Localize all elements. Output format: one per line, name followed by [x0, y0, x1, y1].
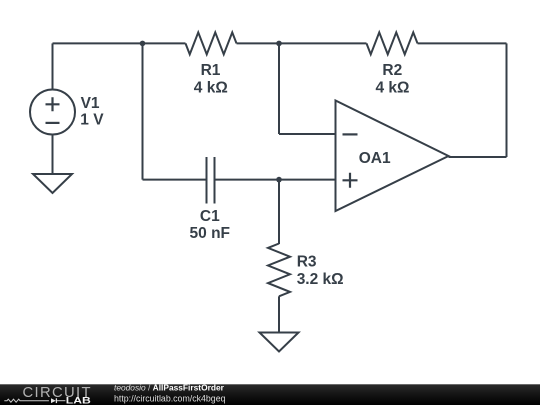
logo symbol: resistor zigzag and wire [4, 399, 49, 402]
svg-text:http://circuitlab.com/ck4bgeq: http://circuitlab.com/ck4bgeq [114, 394, 226, 404]
wire: node B to R2 left lead [279, 42, 367, 44]
wire: op-amp output to feedback corner [449, 156, 507, 158]
svg-text:teodosio / AllPassFirstOrder: teodosio / AllPassFirstOrder [114, 383, 225, 393]
wire: V1 top lead [52, 43, 54, 89]
node B dot [276, 41, 282, 47]
wire: node A to R1 left lead [143, 42, 186, 44]
svg-text:OA1: OA1 [359, 150, 391, 167]
ground (V1) [33, 174, 72, 193]
svg-text:R2: R2 [382, 62, 402, 79]
V1 plus sign [46, 97, 60, 111]
svg-text:50 nF: 50 nF [190, 225, 230, 242]
wire: minus input horizontal [279, 133, 336, 135]
svg-text:LAB: LAB [66, 395, 91, 405]
svg-text:C1: C1 [200, 208, 220, 225]
svg-text:V1: V1 [81, 95, 100, 112]
svg-text:R3: R3 [297, 253, 317, 270]
wire: top-left horizontal from V1 top to node A [53, 42, 143, 44]
V1 minus sign [46, 122, 60, 124]
wire: right vertical feedback [506, 43, 508, 157]
wire: middle horizontal to C1 left plate [143, 179, 207, 181]
svg-text:3.2 kΩ: 3.2 kΩ [297, 271, 344, 288]
wire: node B down to minus input level [278, 43, 280, 134]
svg-text:1 V: 1 V [80, 111, 104, 128]
junction dots [140, 41, 282, 183]
op-amp OA1 triangle [336, 101, 449, 212]
wire: node C down to R3 top lead [278, 180, 280, 244]
wire: R3 bottom lead [278, 296, 280, 332]
wire: left vertical from node A down [142, 43, 144, 179]
op-amp minus symbol [343, 133, 358, 135]
wire: R2 right lead to top-right corner [418, 42, 507, 44]
resistor R2 zigzag [367, 32, 418, 54]
voltage source V1 circle [30, 90, 75, 135]
svg-text:4 kΩ: 4 kΩ [376, 80, 410, 97]
svg-text:R1: R1 [201, 62, 221, 79]
op-amp plus symbol [343, 173, 358, 188]
capacitor C1 plates [207, 157, 215, 204]
node A dot [140, 41, 146, 47]
ground (R3) [260, 333, 299, 352]
wire: V1 bottom lead [52, 135, 54, 175]
svg-text:4 kΩ: 4 kΩ [194, 80, 228, 97]
resistor R1 zigzag [186, 32, 237, 54]
wire: C1 right plate to op-amp plus input [215, 179, 336, 181]
wire: R1 right lead to node B [237, 42, 280, 44]
node C dot [276, 177, 282, 183]
logo symbol: diode [51, 398, 56, 403]
resistor R3 zigzag (vertical) [268, 244, 290, 297]
